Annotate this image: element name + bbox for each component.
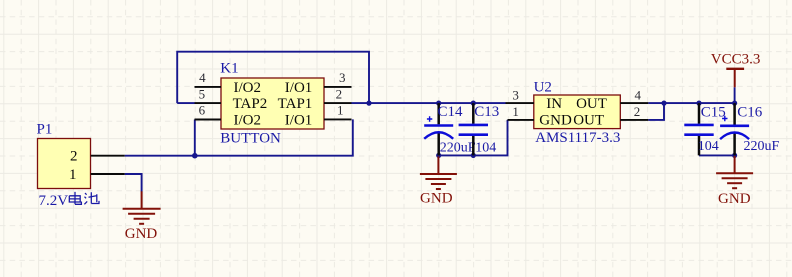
svg-text:3: 3 <box>339 70 346 85</box>
wire C15 C16 bottom rail <box>699 154 735 156</box>
power port VCC3.3 <box>711 52 761 88</box>
svg-text:1: 1 <box>512 104 519 119</box>
U2 pin 3 <box>506 87 535 103</box>
svg-text:3: 3 <box>512 87 519 102</box>
svg-text:OUT: OUT <box>573 112 604 128</box>
K1 pin 1 <box>324 103 352 120</box>
svg-text:U2: U2 <box>534 79 552 95</box>
svg-text:AMS1117-3.3: AMS1117-3.3 <box>535 130 620 146</box>
svg-text:I/O1: I/O1 <box>285 112 313 128</box>
svg-text:220uF: 220uF <box>744 139 780 154</box>
svg-text:GND: GND <box>420 190 453 206</box>
capacitor C15 <box>684 103 726 155</box>
svg-text:2: 2 <box>70 148 78 164</box>
connector P1 <box>37 122 91 189</box>
svg-text:I/O2: I/O2 <box>234 112 262 128</box>
svg-text:GND: GND <box>718 191 751 207</box>
ground GND left <box>123 191 161 242</box>
svg-text:2: 2 <box>336 86 343 101</box>
capacitor C16 <box>720 103 779 155</box>
ground GND middle <box>420 156 457 206</box>
svg-text:IN: IN <box>546 96 562 112</box>
capacitor C13 <box>459 103 500 155</box>
svg-text:TAP2: TAP2 <box>233 96 268 112</box>
svg-text:104: 104 <box>698 139 719 154</box>
P1 value 7.2V dianchi <box>39 192 100 209</box>
wire C14 C13 bottom rail to U2.1 <box>439 120 508 155</box>
svg-text:C15: C15 <box>701 105 726 121</box>
svg-text:K1: K1 <box>220 60 238 76</box>
svg-text:7.2V: 7.2V <box>39 193 69 209</box>
svg-text:GND: GND <box>539 112 572 128</box>
switch K1 <box>220 60 324 146</box>
P1 pin 2 <box>91 155 125 157</box>
svg-text:4: 4 <box>634 87 641 102</box>
svg-text:4: 4 <box>199 70 206 85</box>
svg-text:OUT: OUT <box>576 96 607 112</box>
svg-text:5: 5 <box>199 86 206 101</box>
svg-text:BUTTON: BUTTON <box>220 130 281 146</box>
U2 pin 1 <box>508 104 535 120</box>
wire bottom net P1.2 K1.6 K1.1 <box>125 119 353 155</box>
wire main rail K1.2 to U2.3 <box>352 102 506 104</box>
svg-text:1: 1 <box>337 103 344 118</box>
svg-text:104: 104 <box>475 141 496 156</box>
svg-text:VCC3.3: VCC3.3 <box>711 52 761 68</box>
svg-text:TAP1: TAP1 <box>278 96 313 112</box>
K1 pin 6 <box>195 103 222 120</box>
K1 pin 3 <box>324 70 352 87</box>
wire P1.1 to ground <box>125 174 142 192</box>
svg-text:P1: P1 <box>37 122 53 138</box>
svg-text:1: 1 <box>69 167 77 183</box>
U2 pin 2 <box>620 104 648 120</box>
svg-text:220uF: 220uF <box>440 141 476 156</box>
K1 pin 4 <box>195 70 222 87</box>
ground GND right <box>716 156 753 207</box>
svg-text:6: 6 <box>199 103 206 118</box>
regulator U2 <box>534 79 621 146</box>
svg-text:2: 2 <box>634 104 641 119</box>
wire VCC drop <box>734 87 736 103</box>
svg-text:I/O1: I/O1 <box>285 80 313 96</box>
svg-text:C13: C13 <box>474 104 499 120</box>
svg-text:GND: GND <box>125 226 158 242</box>
K1 pin 5 <box>195 86 222 103</box>
capacitor C14 <box>424 103 476 155</box>
P1 pin 1 <box>91 173 125 175</box>
svg-text:C16: C16 <box>737 105 763 121</box>
wire U2.4 U2.2 to VCC rail <box>648 103 734 120</box>
U2 pin 4 <box>620 87 648 103</box>
wire top loop K1.5 to K1.2 <box>177 52 369 103</box>
svg-text:C14: C14 <box>438 104 464 120</box>
K1 pin 2 <box>324 86 352 103</box>
svg-text:I/O2: I/O2 <box>234 80 262 96</box>
junction dots <box>192 101 737 159</box>
